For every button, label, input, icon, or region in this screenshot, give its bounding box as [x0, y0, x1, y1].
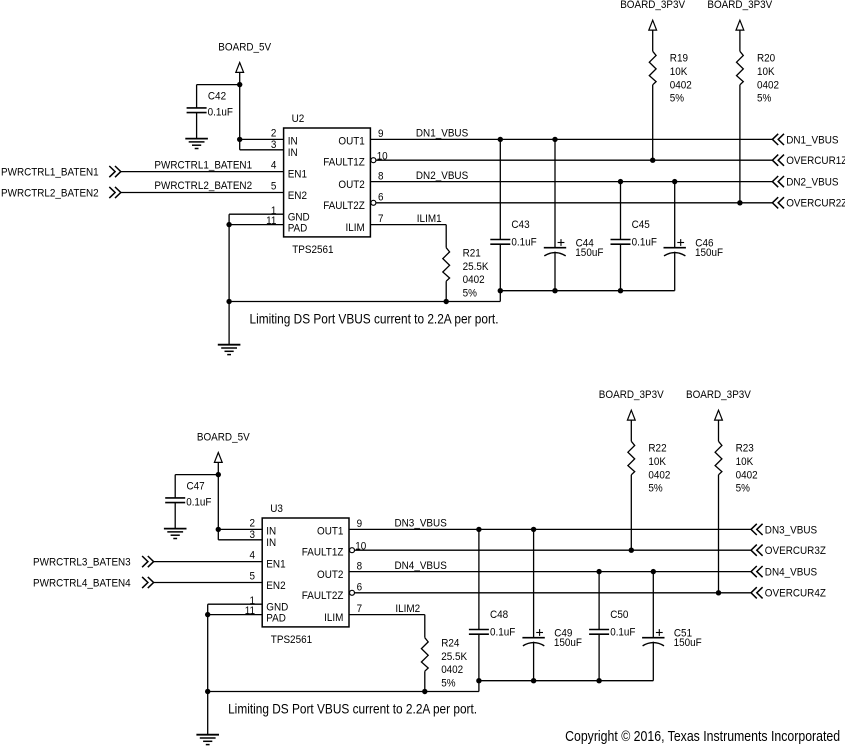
svg-text:10K: 10K	[736, 456, 754, 468]
svg-text:150uF: 150uF	[674, 637, 702, 649]
svg-text:0.1uF: 0.1uF	[208, 107, 234, 119]
svg-text:Limiting DS Port VBUS current: Limiting DS Port VBUS current to 2.2A pe…	[250, 311, 499, 327]
svg-text:DN1_VBUS: DN1_VBUS	[416, 128, 468, 140]
svg-text:9: 9	[378, 128, 384, 140]
svg-text:EN1: EN1	[288, 169, 307, 181]
svg-text:OVERCUR4Z: OVERCUR4Z	[765, 588, 826, 600]
svg-text:BOARD_3P3V: BOARD_3P3V	[686, 389, 751, 401]
svg-text:PWRCTRL4_BATEN4: PWRCTRL4_BATEN4	[33, 577, 131, 589]
svg-text:IN: IN	[288, 147, 298, 159]
svg-text:ILIM: ILIM	[324, 612, 343, 624]
svg-text:PAD: PAD	[266, 612, 286, 624]
svg-text:OUT1: OUT1	[338, 135, 364, 147]
svg-text:FAULT2Z: FAULT2Z	[302, 590, 344, 602]
svg-text:8: 8	[378, 170, 384, 182]
svg-text:DN3_VBUS: DN3_VBUS	[765, 524, 817, 536]
svg-text:0402: 0402	[441, 664, 463, 676]
svg-text:3: 3	[250, 529, 256, 541]
svg-text:IN: IN	[288, 135, 298, 147]
svg-text:R21: R21	[463, 248, 481, 260]
svg-text:OVERCUR2Z: OVERCUR2Z	[786, 198, 845, 210]
svg-text:0402: 0402	[736, 469, 758, 481]
svg-text:5: 5	[250, 571, 256, 583]
svg-text:FAULT1Z: FAULT1Z	[323, 157, 365, 169]
svg-text:R19: R19	[670, 53, 688, 65]
svg-text:0402: 0402	[463, 274, 485, 286]
svg-text:OVERCUR1Z: OVERCUR1Z	[786, 155, 845, 167]
svg-text:BOARD_3P3V: BOARD_3P3V	[620, 0, 685, 11]
svg-text:PWRCTRL1_BATEN1: PWRCTRL1_BATEN1	[154, 159, 252, 171]
svg-text:OUT1: OUT1	[317, 525, 343, 537]
svg-text:PAD: PAD	[288, 222, 308, 234]
svg-text:EN2: EN2	[288, 190, 307, 202]
svg-text:2: 2	[250, 518, 256, 530]
svg-text:R22: R22	[648, 443, 666, 455]
svg-text:IN: IN	[266, 525, 276, 537]
svg-text:9: 9	[357, 518, 363, 530]
svg-text:6: 6	[357, 582, 363, 594]
svg-text:0.1uF: 0.1uF	[610, 627, 636, 639]
svg-text:OUT2: OUT2	[317, 569, 343, 581]
svg-text:EN1: EN1	[266, 559, 285, 571]
svg-text:IN: IN	[266, 537, 276, 549]
svg-text:150uF: 150uF	[554, 637, 582, 649]
svg-text:0.1uF: 0.1uF	[490, 627, 516, 639]
svg-text:ILIM1: ILIM1	[417, 213, 442, 225]
svg-text:ILIM: ILIM	[346, 222, 365, 234]
svg-text:3: 3	[271, 139, 277, 151]
svg-text:DN2_VBUS: DN2_VBUS	[786, 177, 838, 189]
svg-text:10K: 10K	[757, 66, 775, 78]
svg-text:5%: 5%	[757, 93, 771, 105]
svg-text:8: 8	[357, 560, 363, 572]
svg-text:PWRCTRL1_BATEN1: PWRCTRL1_BATEN1	[1, 167, 99, 179]
svg-text:4: 4	[271, 160, 277, 172]
svg-text:OVERCUR3Z: OVERCUR3Z	[765, 545, 826, 557]
svg-text:BOARD_5V: BOARD_5V	[218, 42, 271, 54]
svg-text:PWRCTRL2_BATEN2: PWRCTRL2_BATEN2	[154, 180, 252, 192]
svg-text:OUT2: OUT2	[338, 179, 364, 191]
svg-text:10: 10	[377, 151, 388, 163]
svg-text:0402: 0402	[670, 79, 692, 91]
svg-text:5%: 5%	[736, 483, 750, 495]
svg-text:BOARD_3P3V: BOARD_3P3V	[599, 389, 664, 401]
svg-text:150uF: 150uF	[695, 247, 723, 259]
svg-text:5%: 5%	[670, 93, 684, 105]
svg-text:TPS2561: TPS2561	[271, 634, 312, 646]
svg-text:0.1uF: 0.1uF	[511, 237, 537, 249]
svg-text:5%: 5%	[441, 678, 455, 690]
svg-text:0402: 0402	[757, 79, 779, 91]
svg-text:BOARD_3P3V: BOARD_3P3V	[707, 0, 772, 11]
svg-text:R20: R20	[757, 53, 775, 65]
svg-text:FAULT1Z: FAULT1Z	[302, 547, 344, 559]
svg-text:5%: 5%	[463, 288, 477, 300]
svg-text:7: 7	[378, 213, 384, 225]
svg-text:0.1uF: 0.1uF	[632, 237, 658, 249]
svg-text:TPS2561: TPS2561	[292, 244, 333, 256]
svg-text:2: 2	[271, 128, 277, 140]
svg-text:C43: C43	[511, 219, 529, 231]
svg-text:0402: 0402	[648, 469, 670, 481]
svg-text:DN2_VBUS: DN2_VBUS	[416, 170, 468, 182]
svg-text:U3: U3	[270, 503, 283, 515]
svg-text:C45: C45	[632, 219, 650, 231]
svg-text:Limiting DS Port VBUS current: Limiting DS Port VBUS current to 2.2A pe…	[228, 701, 477, 717]
svg-text:C50: C50	[610, 609, 628, 621]
svg-text:BOARD_5V: BOARD_5V	[197, 432, 250, 444]
svg-text:10K: 10K	[670, 66, 688, 78]
svg-text:7: 7	[357, 603, 363, 615]
svg-text:FAULT2Z: FAULT2Z	[323, 200, 365, 212]
svg-text:25.5K: 25.5K	[441, 651, 467, 663]
svg-text:5: 5	[271, 181, 277, 193]
svg-text:10: 10	[355, 541, 366, 553]
svg-text:DN4_VBUS: DN4_VBUS	[765, 567, 817, 579]
svg-text:4: 4	[250, 550, 256, 562]
svg-text:PWRCTRL3_BATEN3: PWRCTRL3_BATEN3	[33, 557, 131, 569]
svg-text:C47: C47	[187, 481, 205, 493]
svg-text:10K: 10K	[648, 456, 666, 468]
svg-text:150uF: 150uF	[575, 247, 603, 259]
svg-text:R23: R23	[736, 443, 754, 455]
svg-text:11: 11	[245, 605, 255, 617]
svg-text:C48: C48	[490, 609, 508, 621]
svg-text:DN3_VBUS: DN3_VBUS	[395, 518, 447, 530]
svg-text:U2: U2	[292, 113, 305, 125]
svg-text:EN2: EN2	[266, 580, 285, 592]
svg-text:0.1uF: 0.1uF	[186, 497, 212, 509]
svg-text:5%: 5%	[648, 483, 662, 495]
svg-text:11: 11	[266, 215, 276, 227]
svg-text:25.5K: 25.5K	[463, 261, 489, 273]
svg-text:DN1_VBUS: DN1_VBUS	[786, 134, 838, 146]
svg-text:Copyright © 2016, Texas Instru: Copyright © 2016, Texas Instruments Inco…	[565, 728, 840, 745]
svg-text:ILIM2: ILIM2	[395, 603, 420, 615]
svg-text:6: 6	[378, 192, 384, 204]
svg-text:DN4_VBUS: DN4_VBUS	[395, 560, 447, 572]
svg-text:C42: C42	[208, 91, 226, 103]
svg-text:PWRCTRL2_BATEN2: PWRCTRL2_BATEN2	[1, 187, 99, 199]
svg-text:R24: R24	[441, 638, 459, 650]
